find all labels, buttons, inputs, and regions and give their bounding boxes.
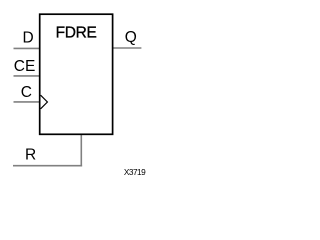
svg-text:Q: Q bbox=[125, 29, 137, 46]
svg-text:D: D bbox=[23, 29, 34, 46]
svg-text:X3719: X3719 bbox=[124, 167, 146, 177]
svg-text:CE: CE bbox=[14, 58, 36, 75]
svg-text:R: R bbox=[25, 147, 36, 164]
svg-text:FDRE: FDRE bbox=[56, 25, 97, 42]
svg-text:C: C bbox=[21, 84, 32, 101]
